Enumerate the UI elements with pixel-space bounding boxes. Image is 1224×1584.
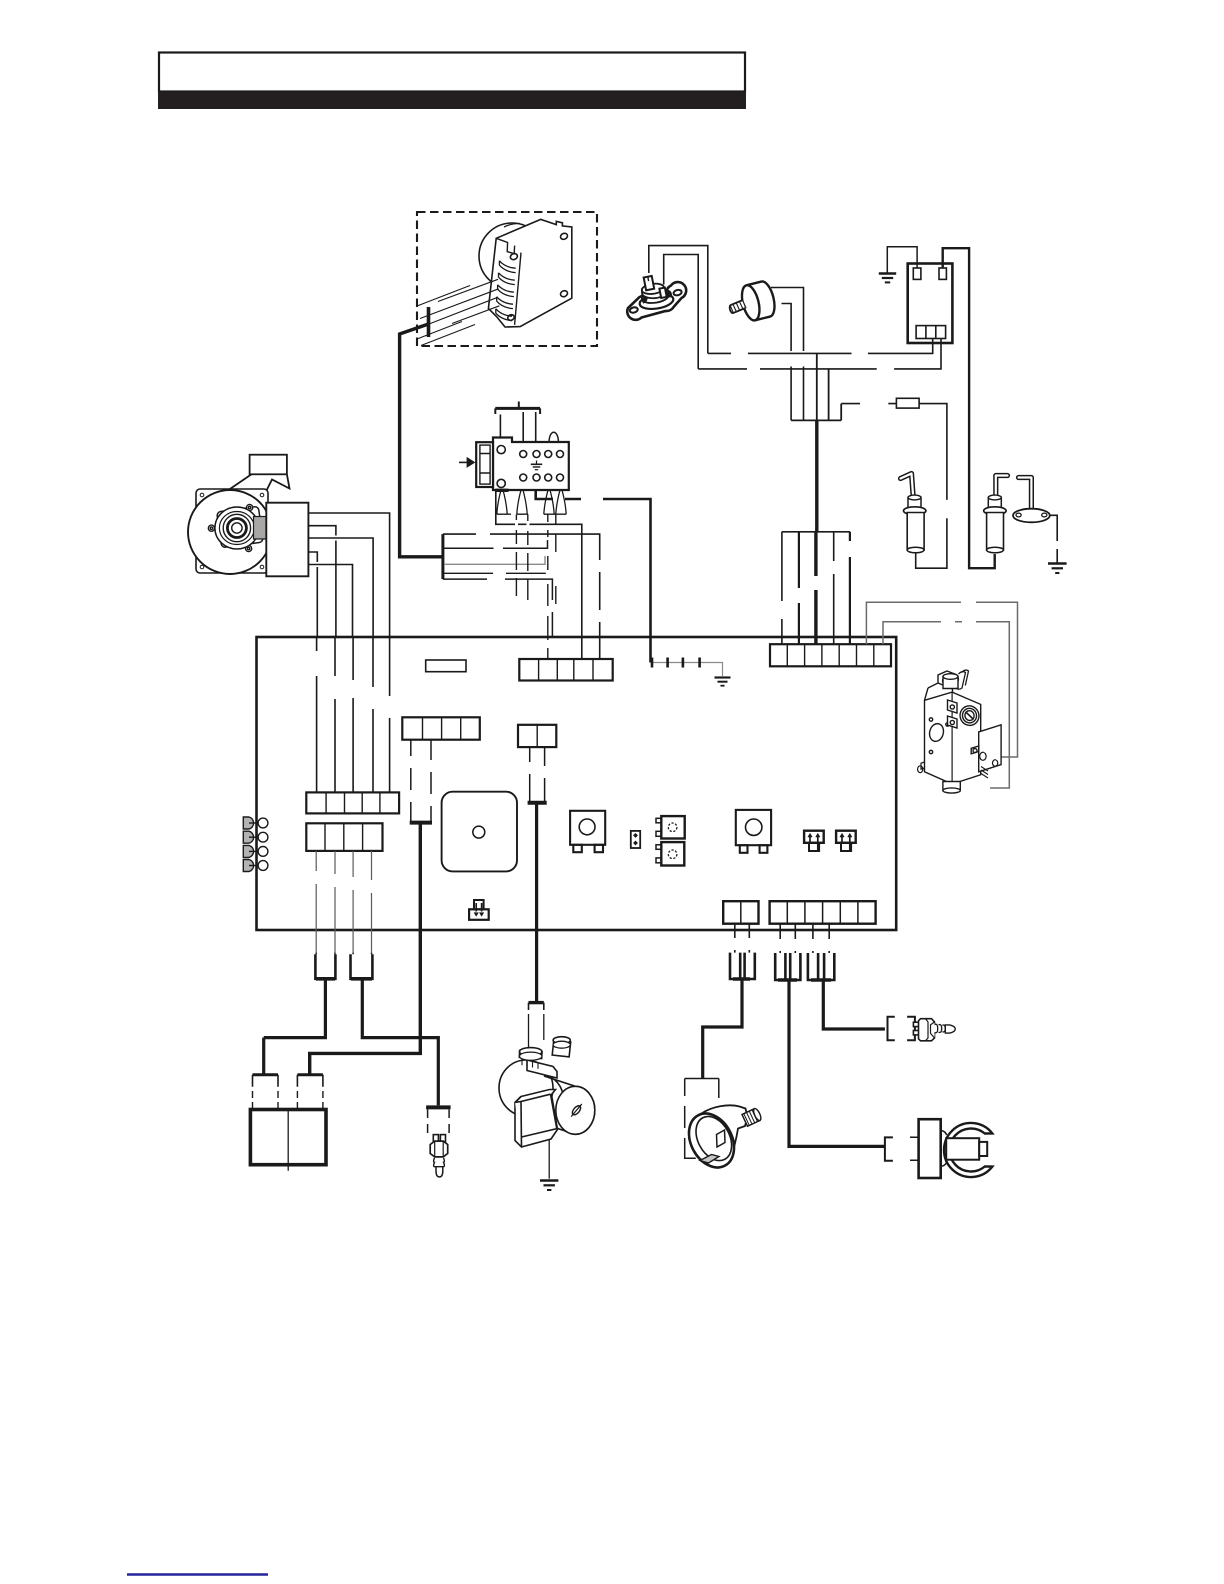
plug A wires (316, 953, 371, 955)
wire to pipe clip sensor (789, 980, 885, 1146)
sensor plug pair 2 (808, 953, 834, 980)
fan wires inside pcb (317, 637, 390, 792)
earth symbol (pump) (540, 1181, 558, 1191)
mains cable wires (500, 412, 535, 442)
arrow marker (459, 461, 467, 463)
title bar black band (158, 92, 746, 110)
wire to water pressure sensor (703, 979, 742, 1079)
loom fan-out to pcb connector (782, 532, 850, 644)
fan backplate (196, 489, 268, 573)
relay RL3 (736, 810, 771, 853)
spark generator HT leads (417, 279, 499, 345)
wire plug B to dhw thermistor (362, 979, 438, 1106)
fan scroll housing (188, 490, 272, 574)
supply terminal block body (476, 438, 569, 491)
flow thermistor (913, 1019, 955, 1041)
neutral wire block to pcb (443, 534, 600, 659)
wire suppressor to ignition electrode (916, 404, 947, 569)
earth symbol (interface box) (879, 274, 896, 283)
dhw plug pair (730, 953, 755, 979)
fuse holder (469, 900, 489, 920)
wire plug A to dual box (264, 979, 326, 1038)
suppressor box (896, 398, 919, 408)
pump connector wires (530, 747, 545, 801)
wire run y403.6 with suppressor to ignition electrode (841, 403, 896, 405)
wire to flow thermistor (823, 980, 885, 1029)
dual terminal box stubs (253, 1075, 323, 1110)
wire interface to earth (887, 247, 917, 273)
overheat thermostat (627, 276, 686, 320)
detection electrode (984, 476, 1008, 553)
thick loom drop to pcb (815, 420, 818, 531)
spark generator ignition unit (479, 219, 572, 327)
wires sensor strip to plugs (grey) (316, 851, 371, 953)
wiring loom box (443, 534, 553, 637)
spark lead black ferrule (427, 307, 431, 337)
relay RL1 (570, 811, 605, 852)
pcb small rectangle (426, 660, 466, 672)
dhw wires below pcb (735, 924, 750, 953)
interface pcb box (908, 264, 953, 344)
earth symbol (electrodes) (1048, 564, 1067, 574)
pump connector (2 way) (518, 725, 556, 747)
interface box bottom terminal row (916, 326, 946, 339)
room stat plug B (351, 954, 373, 979)
live wire block to pcb (496, 490, 582, 659)
pump earth wire (548, 1139, 550, 1179)
pump body (499, 1037, 595, 1147)
wire loop over block (549, 432, 559, 442)
sensor connector strip (4 way) (306, 823, 382, 851)
mains cable clamp bracket (495, 402, 540, 415)
relay RL2b (656, 842, 684, 865)
air pressure switch (725, 280, 777, 326)
earth tag wire to ground (1050, 515, 1057, 562)
jumper header J1 (804, 831, 824, 851)
ignition electrode (901, 474, 926, 553)
spark generator dashed enclosure (417, 212, 597, 346)
relay RL2a (656, 816, 685, 838)
earth tick bus (650, 663, 722, 677)
sensor wires below pcb (780, 924, 829, 953)
pipe clip sensor (910, 1119, 992, 1178)
fan connector (grey) (254, 517, 268, 540)
aux connector (4 way) (402, 717, 480, 739)
footer rule (127, 1573, 268, 1576)
terminal block earth mark (531, 461, 542, 470)
flow thermistor bracket (888, 1017, 915, 1041)
cone cap (HT) (495, 489, 508, 492)
transformer (442, 792, 517, 872)
loom crossing wires (dashed) (516, 514, 555, 659)
status LEDs (243, 817, 268, 872)
fan mount ears (208, 504, 252, 551)
thermistor feed junction (410, 821, 432, 825)
main pcb outline (257, 637, 897, 930)
sensor plug pair 1 (775, 953, 800, 980)
wire run y353 (stat - bus tap - interface) (708, 339, 933, 354)
strain relief cones (497, 490, 566, 514)
control connector X2 (7 way) (770, 644, 891, 666)
link header (631, 831, 640, 848)
cylinder box stub left (262, 1038, 265, 1075)
fan wires to pcb (308, 513, 389, 637)
fan outlet duct (218, 455, 290, 498)
fan motor rings (215, 507, 259, 549)
earth tag electrode (1013, 478, 1050, 523)
dual terminal box (250, 1110, 326, 1165)
fan motor mount (217, 506, 264, 547)
wire APS top to bus (771, 288, 804, 421)
interface box top terminals (913, 268, 921, 279)
wire stat to bus (right terminal) (664, 255, 699, 369)
gas valve wire upper (grey) (866, 602, 1017, 757)
fan connector strip (5 way) (306, 792, 399, 813)
jumper header J2 (836, 831, 856, 851)
pipe clip sensor bracket (885, 1137, 893, 1160)
room stat plug A (315, 954, 335, 979)
dhw thermistor (426, 1107, 451, 1176)
pump feed junction (528, 801, 547, 805)
water pressure sensor (680, 1105, 762, 1175)
fan junction box (266, 503, 308, 577)
thick pump wire (535, 804, 538, 1003)
gas valve body (918, 670, 1002, 793)
water pressure sensor enclosure (dashed) (685, 1079, 719, 1159)
dhw connector (2 way) (723, 901, 758, 924)
wire run y368.9 (stat - bus tap - interface) (698, 339, 941, 369)
mains connector X1 (5 way) (519, 659, 612, 681)
bus collector (791, 353, 841, 420)
wire stat to bus (left terminal) (649, 246, 708, 354)
sensor connector (6 way) (770, 901, 876, 924)
pump plug (529, 1003, 544, 1096)
wire interface to flame electrode (down right side) (943, 248, 995, 568)
wire APS side to bus (782, 304, 792, 421)
title bar box (159, 53, 745, 92)
thick spark supply wire (400, 324, 443, 557)
cone base line (497, 513, 566, 515)
terminal block screws (497, 446, 563, 488)
thick wire to dual box and sensor (310, 824, 421, 1075)
earth symbol (pcb) (715, 678, 731, 686)
earth wire block to pcb (536, 490, 651, 663)
aux connector wires (411, 740, 431, 822)
gas valve wire lower (grey) (883, 622, 1009, 788)
